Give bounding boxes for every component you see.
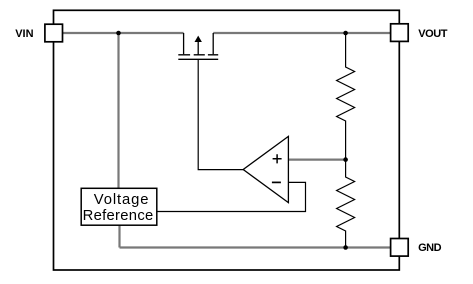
wire: feedback node to op-amp + input	[288, 159, 345, 161]
svg-text:VOUT: VOUT	[418, 28, 447, 40]
junction dot: feedback node	[343, 157, 348, 162]
IC boundary box	[54, 10, 400, 270]
op-amp + input symbol	[273, 154, 282, 163]
svg-text:Voltage: Voltage	[94, 192, 150, 208]
junction dot: divider bottom to ground rail	[343, 245, 348, 250]
wire: VIN pad to pass FET source	[62, 32, 184, 34]
wire: FET drain to VOUT pad	[213, 32, 392, 34]
svg-text:Reference: Reference	[83, 208, 154, 224]
resistor R2 lower feedback divider	[337, 160, 355, 248]
transistor Q1: gate bar	[178, 58, 218, 60]
transistor Q1: channel segments	[178, 54, 218, 56]
op-amp U1 error amplifier triangle	[243, 136, 288, 202]
wire: op-amp output to gate	[198, 59, 244, 169]
junction dot: VIN / reference tap	[116, 31, 121, 36]
pin pad VOUT	[391, 24, 409, 42]
transistor Q1: body arrow shaft	[197, 41, 199, 55]
junction dot: VOUT / divider tap	[343, 31, 348, 36]
op-amp - input symbol	[272, 181, 281, 183]
transistor Q1: body arrow head	[195, 36, 202, 42]
svg-text:GND: GND	[418, 242, 442, 254]
resistor R1 upper feedback divider	[337, 33, 355, 160]
wire: VIN tap down to voltage reference	[117, 33, 119, 189]
transistor Q1: drain stub	[212, 33, 214, 54]
svg-text:VIN: VIN	[15, 28, 33, 40]
transistor Q1 pass PMOS: source stub	[183, 33, 185, 54]
wire: op-amp - input to voltage reference output	[157, 182, 306, 211]
wire: ground rail to GND pad	[120, 246, 393, 248]
pin pad VIN	[45, 24, 63, 42]
voltage reference block	[81, 188, 157, 225]
pin pad GND	[391, 239, 409, 257]
wire: reference block down to ground rail	[118, 225, 120, 248]
